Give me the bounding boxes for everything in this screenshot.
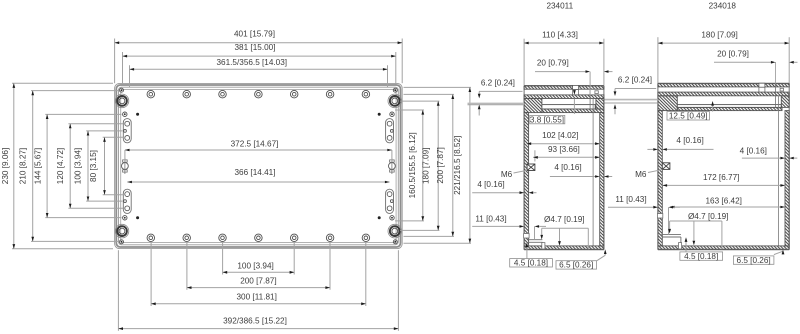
dimension 200 [7.87] bottom (187, 287, 330, 289)
svg-text:Ø4.7 [0.19]: Ø4.7 [0.19] (688, 212, 729, 221)
corner index dot (378, 113, 381, 116)
section 234018 left flange hatch (658, 96, 677, 111)
section 234011 lower flange hatch (542, 109, 604, 113)
svg-text:4 [0.16]: 4 [0.16] (676, 136, 703, 145)
section 234018 M6 boss (662, 163, 670, 170)
corner index dot (136, 216, 139, 219)
dimension 381 [15.00] (123, 55, 396, 57)
corner mounting screw boss (388, 94, 402, 108)
section 234018 bottom screw hole (679, 243, 682, 249)
svg-text:6.2 [0.24]: 6.2 [0.24] (618, 76, 652, 85)
hinge slot plate (386, 189, 394, 213)
svg-text:102 [4.02]: 102 [4.02] (542, 131, 578, 140)
svg-text:210 [8.27]: 210 [8.27] (19, 148, 28, 184)
svg-text:392/386.5 [15.22]: 392/386.5 [15.22] (223, 317, 287, 326)
svg-text:381 [15.00]: 381 [15.00] (235, 43, 276, 52)
dimension 172 [6.77] (663, 184, 786, 186)
extension lines right dims (395, 109, 424, 111)
svg-text:M6: M6 (501, 170, 513, 179)
corner lid screw (393, 88, 397, 92)
section 234011: dimension 110 [4.33] (523, 39, 525, 85)
extension lines left dims (12, 82, 113, 84)
dimension 200 [7.87] right (452, 94, 454, 236)
svg-text:120 [4.72]: 120 [4.72] (56, 148, 65, 184)
corner small hole (390, 216, 394, 220)
svg-text:163 [6.42]: 163 [6.42] (705, 196, 741, 205)
svg-text:4.5 [0.18]: 4.5 [0.18] (514, 259, 548, 268)
corner small hole (390, 112, 394, 116)
section 234018 lower flange hatch (677, 107, 782, 110)
svg-text:200 [7.87]: 200 [7.87] (240, 277, 276, 286)
label 4.5 [0.18] (section 234011) (510, 259, 553, 267)
svg-text:172 [6.77]: 172 [6.77] (703, 173, 739, 182)
section 234018 right screw boss hatch (781, 96, 789, 108)
section 234018 left wall hatch (658, 111, 662, 214)
section 234011 screw channel (592, 99, 594, 246)
svg-text:160.5/155.5 [6.12]: 160.5/155.5 [6.12] (408, 132, 417, 198)
section 234018 right wall hatch (785, 111, 789, 246)
svg-text:6.2 [0.24]: 6.2 [0.24] (481, 79, 515, 88)
svg-text:180 [7.09]: 180 [7.09] (421, 148, 430, 184)
dimension 372.5 [14.67] (124, 150, 126, 162)
lid latch 234018 (780, 88, 783, 91)
section 234011 side wall hole (524, 234, 530, 239)
dimension 100 [3.94] bottom (223, 271, 295, 273)
section 234011 bottom step (528, 239, 543, 241)
svg-text:4 [0.16]: 4 [0.16] (554, 163, 581, 172)
section 234018 cover plate (hatched) (658, 92, 789, 96)
dimension 144 [5.67] (46, 114, 48, 217)
dimension 120 [4.72] (69, 124, 71, 209)
corner small hole (123, 216, 127, 220)
section 234018: dimension 180 [7.09] (657, 37, 659, 83)
corner lid screw (393, 240, 397, 244)
svg-text:221/216.5 [8.52]: 221/216.5 [8.52] (453, 136, 462, 195)
dimension 102 [4.02] (527, 143, 600, 145)
corner lid screw (120, 240, 124, 244)
svg-text:6.5 [0.26]: 6.5 [0.26] (559, 261, 593, 270)
dimension 93 [3.66] (534, 150, 536, 161)
section 234011 recessed panel (542, 105, 595, 109)
section 234018 body outline (658, 82, 789, 84)
dimension 392/386.5 [15.22] (118, 328, 398, 330)
section 234011 lid (hatched) (524, 86, 604, 89)
screw holes bottom row (147, 234, 155, 242)
dimension 163 [6.42] (670, 206, 785, 208)
label 4.5 [0.18] (section 234018) (680, 252, 723, 260)
svg-text:11 [0.43]: 11 [0.43] (475, 215, 506, 224)
lid screw slot (573, 85, 579, 89)
dimension 361.5/356.5 [14.03] (130, 68, 388, 70)
section 234011 bottom wall hatch (524, 246, 604, 249)
svg-text:11 [0.43]: 11 [0.43] (615, 195, 646, 204)
svg-text:100 [3.94]: 100 [3.94] (237, 261, 273, 270)
svg-text:361.5/356.5 [14.03]: 361.5/356.5 [14.03] (217, 58, 288, 67)
section 234011 right wall hatch (600, 113, 604, 246)
label 6.5 [0.26] (section 234018) (733, 256, 774, 264)
section 234018 screw channel (775, 62, 777, 84)
svg-text:20 [0.79]: 20 [0.79] (537, 58, 569, 67)
section 234011 left wall hatch (524, 113, 529, 234)
hinge slot plate (123, 119, 131, 143)
svg-text:4 [0.16]: 4 [0.16] (740, 147, 767, 156)
main view: enclosure bottom view outline (115, 83, 403, 248)
svg-text:93 [3.66]: 93 [3.66] (548, 145, 580, 154)
dimension 300 [11.81] (151, 303, 366, 305)
section 234011 body outline (524, 85, 604, 87)
hinge slot plate (386, 119, 394, 143)
section 234011 bottom screw hole (542, 243, 545, 249)
mid-edge screw boss (389, 163, 396, 170)
hinge slot plate (123, 189, 131, 213)
svg-text:200 [7.87]: 200 [7.87] (436, 147, 445, 183)
section 234018 bottom step (661, 233, 681, 235)
svg-text:300 [11.81]: 300 [11.81] (237, 292, 277, 301)
dimension 160.5/155.5 [6.12] (422, 110, 424, 221)
corner index dot (136, 113, 139, 116)
dimension 12.5 [0.49] with leader (667, 112, 710, 120)
section 234018 side wall hole (657, 214, 662, 219)
section 234018 recessed panel (677, 105, 781, 108)
svg-text:12.5 [0.49]: 12.5 [0.49] (669, 112, 708, 121)
dimension 180 [7.09] right (437, 101, 439, 230)
svg-text:100 [3.94]: 100 [3.94] (74, 148, 83, 184)
extension lines bottom dims (222, 242, 224, 274)
section 234011 left flange hatch (524, 99, 542, 113)
dimension 221/216.5 [8.52] (469, 87, 471, 243)
svg-text:6.5 [0.26]: 6.5 [0.26] (737, 256, 771, 265)
corner mounting screw boss (115, 94, 129, 108)
svg-text:372.5 [14.67]: 372.5 [14.67] (231, 139, 279, 148)
corner mounting screw boss (115, 224, 129, 238)
lid screw slot 234018 (759, 83, 765, 87)
corner lid screw (120, 88, 124, 92)
section 234011 right screw boss hatch (596, 99, 604, 110)
dimension 210 [8.27] (32, 91, 34, 242)
dimension 401 [15.79] (115, 42, 403, 44)
dimension 230 [9.06] (13, 83, 15, 248)
svg-text:144 [5.67]: 144 [5.67] (34, 148, 43, 184)
svg-text:Ø4.7 [0.19]: Ø4.7 [0.19] (544, 215, 585, 224)
section 234018 bottom wall hatch (658, 246, 789, 249)
dimension 80 [3.15] (104, 137, 106, 194)
label 6.5 [0.26] (section 234011) (556, 261, 597, 269)
svg-text:180 [7.09]: 180 [7.09] (701, 30, 737, 39)
dimension 100 [3.94] left (87, 131, 89, 201)
corner small hole (123, 112, 127, 116)
svg-text:20 [0.79]: 20 [0.79] (717, 50, 749, 59)
svg-text:3.8 [0.55]: 3.8 [0.55] (530, 115, 564, 124)
section 234011 M6 boss (527, 164, 535, 171)
lid latch 234011 (595, 91, 598, 94)
screw holes top row (147, 90, 155, 98)
svg-text:234018: 234018 (709, 2, 737, 11)
svg-text:4.5 [0.18]: 4.5 [0.18] (684, 252, 718, 261)
corner index dot (378, 216, 381, 219)
svg-text:366 [14.41]: 366 [14.41] (235, 168, 276, 177)
mid-edge screw boss (122, 163, 129, 170)
section 234018 lid (hatched) (658, 84, 789, 87)
svg-text:230 [9.06]: 230 [9.06] (1, 148, 10, 184)
svg-text:4 [0.16]: 4 [0.16] (477, 180, 504, 189)
dimension 366 [14.41] (127, 181, 389, 183)
section 234011 cover plate (hatched) (524, 95, 604, 99)
extension lines top dims (114, 39, 116, 84)
svg-text:401 [15.79]: 401 [15.79] (234, 30, 275, 39)
svg-text:234011: 234011 (546, 2, 573, 11)
svg-text:80 [3.15]: 80 [3.15] (89, 150, 98, 182)
svg-text:110 [4.33]: 110 [4.33] (542, 31, 578, 40)
corner mounting screw boss (388, 224, 402, 238)
svg-text:M6: M6 (635, 170, 647, 179)
